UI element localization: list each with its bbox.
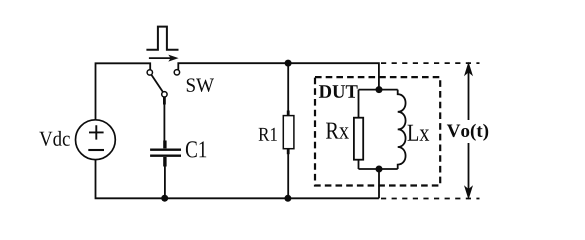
node: junction dot top of R1	[285, 60, 292, 67]
wire: DUT inner bottom rail	[359, 168, 398, 170]
label Vo(t) (on white patch over arrow line)	[444, 120, 491, 143]
wire: switch right contact to DUT top corner	[178, 63, 379, 89]
DUT enclosure (dashed box)	[315, 77, 440, 185]
label DUT	[319, 85, 358, 98]
resistor R1	[283, 63, 294, 198]
measurement arrow Vo(t) (double-headed)	[464, 62, 473, 200]
switch actuation arrow	[149, 55, 179, 62]
label SW	[187, 78, 214, 92]
wire top-left: Vdc top to switch left contact	[96, 63, 151, 120]
voltage source Vdc	[76, 120, 116, 160]
label Vdc	[39, 131, 70, 146]
label Lx	[408, 125, 430, 141]
label R1	[259, 128, 277, 141]
switch SW: pole contact	[162, 92, 167, 97]
switch SW: pole lead stub	[163, 97, 166, 104]
switch SW: left contact	[147, 70, 152, 75]
pulse symbol	[146, 27, 178, 50]
dashed wire: bottom rail to Vo(t) arrow	[381, 198, 480, 200]
capacitor C1	[150, 141, 181, 199]
wire: DUT bottom dot down to bottom rail	[378, 169, 380, 198]
wire: DUT inner top rail	[359, 89, 398, 91]
wire: switch pole down to capacitor	[163, 104, 165, 141]
node: junction dot DUT top	[376, 86, 383, 93]
resistor Rx	[354, 90, 363, 169]
label Rx	[326, 123, 349, 139]
switch SW: right contact	[174, 70, 179, 75]
dashed wire: top rail to Vo(t) arrow	[381, 62, 480, 64]
wire bottom-left: Vdc bottom to DUT drop corner	[96, 160, 379, 199]
switch SW: arm (left contact to pole)	[151, 75, 163, 93]
inductor Lx	[398, 90, 406, 169]
node: junction dot C1 bottom	[161, 195, 168, 202]
node: junction dot R1 bottom	[284, 195, 291, 202]
label C1	[186, 141, 206, 157]
node: junction dot DUT bottom	[376, 166, 383, 173]
